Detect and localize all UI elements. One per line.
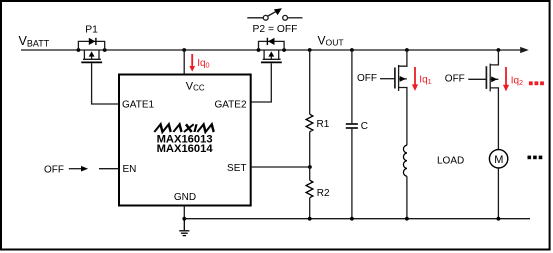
svg-text:SET: SET <box>227 163 246 174</box>
motor load M <box>489 150 507 168</box>
junction Vcc tap <box>182 48 186 52</box>
switch lever arrowhead <box>274 8 282 15</box>
transistor P2 body diode (points left) <box>268 38 275 45</box>
transistor P1 channel structure <box>83 50 101 59</box>
svg-text:VOUT: VOUT <box>318 33 345 47</box>
svg-text:Iq2: Iq2 <box>511 76 523 88</box>
svg-text:GATE2: GATE2 <box>214 99 246 110</box>
junction coil bottom <box>405 217 409 221</box>
wire P2 gate to GATE2 pin <box>251 63 272 102</box>
svg-text:OFF: OFF <box>445 73 465 84</box>
transistor load FET 1 bulk arrow <box>400 76 406 82</box>
svg-text:C: C <box>361 121 368 132</box>
junction motor bottom <box>497 217 501 221</box>
current arrow Iq0 <box>189 54 195 72</box>
MAXIM logo <box>154 124 215 132</box>
transistor load FET 2 <box>486 50 498 150</box>
transistor P1 body-diode loop <box>78 41 104 50</box>
wire top rail VBATT to VOUT arrow <box>21 49 521 51</box>
capacitor C <box>346 124 358 128</box>
wire Vcc tap down to IC <box>183 50 185 75</box>
junction C tap <box>350 48 354 52</box>
wire tap down to R2 <box>309 167 311 180</box>
resistor R1 <box>306 114 313 132</box>
transistor P2 gate plate <box>261 61 282 63</box>
junction SET / divider <box>308 165 312 169</box>
transistor P1 body diode <box>89 38 96 45</box>
wire P1 gate to GATE1 pin <box>92 63 119 104</box>
ground symbol <box>179 219 189 236</box>
svg-text:OFF: OFF <box>44 164 64 175</box>
junction GND rail left end <box>182 217 186 221</box>
svg-text:Iq0: Iq0 <box>197 58 209 70</box>
junction load FET 1 tap <box>405 48 409 52</box>
transistor load FET 2 bulk arrow <box>491 76 497 82</box>
resistor R2 <box>306 180 313 198</box>
wire R2 to ground rail <box>309 198 311 219</box>
junction R2 bottom <box>308 217 312 221</box>
current arrow Iq1 <box>412 67 418 91</box>
svg-text:VCC: VCC <box>186 80 205 92</box>
svg-text:R1: R1 <box>317 119 330 130</box>
wire EN pin stub <box>99 168 119 170</box>
svg-text:M: M <box>494 154 503 166</box>
junction VOUT / R1 tap <box>308 48 312 52</box>
junction C bottom <box>350 217 354 221</box>
junction P1 left <box>77 48 81 52</box>
svg-text:R2: R2 <box>317 188 330 199</box>
svg-text:OFF: OFF <box>357 73 377 84</box>
svg-text:GATE1: GATE1 <box>122 99 154 110</box>
wire VOUT down to capacitor <box>351 50 353 123</box>
junction load FET 2 tap <box>497 48 501 52</box>
svg-text:P1: P1 <box>85 25 98 36</box>
wire VOUT down to R1 <box>309 50 311 114</box>
wire GND pin down <box>183 206 185 219</box>
svg-text:GND: GND <box>174 192 196 203</box>
transistor P1 bulk arrow <box>89 51 95 56</box>
op-amp U1: IC box MAX16013/MAX16014 <box>119 75 251 206</box>
svg-text:EN: EN <box>123 164 137 175</box>
ellipsis more loads (black) <box>528 156 543 160</box>
transistor P1 gate plate <box>81 61 102 63</box>
wire ground rail <box>184 218 530 220</box>
inductor load coil <box>403 145 406 176</box>
wire OFF to FET2 gate <box>468 78 486 80</box>
svg-text:MAX16014: MAX16014 <box>157 143 214 155</box>
svg-text:VBATT: VBATT <box>19 34 50 49</box>
wire R1 to SET tap <box>309 132 311 167</box>
arrowhead at right end of top rail <box>520 47 529 53</box>
arrow OFF to EN <box>69 168 82 170</box>
junction P2 right <box>282 48 286 52</box>
ellipsis more channels (red) <box>529 81 544 85</box>
current arrow Iq2 <box>503 67 509 91</box>
junction P1 right <box>103 48 107 52</box>
wire coil to ground rail <box>406 176 408 219</box>
transistor P2 channel structure <box>263 50 281 59</box>
transistor P2 body-diode loop <box>259 41 285 50</box>
wire SET pin to divider tap <box>251 166 310 168</box>
wire capacitor to ground rail <box>351 129 353 219</box>
svg-text:Iq1: Iq1 <box>419 74 431 86</box>
svg-text:P2 = OFF: P2 = OFF <box>253 24 298 35</box>
wire OFF to FET1 gate <box>380 78 395 80</box>
svg-text:LOAD: LOAD <box>437 156 464 167</box>
wire motor to ground rail <box>497 168 499 219</box>
switch annotation above P2 (open switch) <box>247 11 302 20</box>
transistor P2 bulk arrow <box>268 51 274 56</box>
junction P2 left <box>257 48 261 52</box>
transistor load FET 1 <box>395 50 407 145</box>
